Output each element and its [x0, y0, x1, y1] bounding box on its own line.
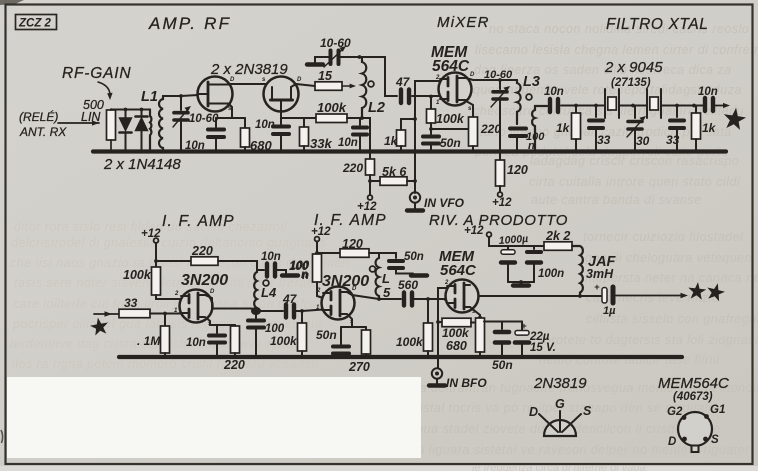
resistor 680 — [244, 118, 246, 128]
capacitor 100n L3 bottom — [510, 127, 526, 131]
svg-text:100k: 100k — [123, 268, 152, 282]
capacitor 22u 15V electrolytic — [521, 322, 523, 331]
white lower-left area — [7, 377, 421, 458]
wire Q1 source — [229, 104, 232, 118]
svg-text:2N3819: 2N3819 — [533, 375, 587, 392]
JFET Q2 2N3819 — [264, 77, 299, 112]
svg-text:10-60: 10-60 — [320, 36, 351, 50]
capacitor 33 first — [594, 104, 598, 108]
MOSFET U1 MEM564C mixer — [439, 73, 472, 106]
wire mixer drain to tank — [466, 78, 517, 80]
svg-text:33: 33 — [597, 133, 611, 147]
wire bias to source — [431, 128, 468, 130]
svg-text:47: 47 — [282, 292, 298, 306]
svg-text:LIN: LIN — [81, 110, 101, 124]
bottom strip below frame — [0, 466, 758, 471]
svg-text:L2: L2 — [368, 100, 385, 116]
capacitor 10n L4 top — [257, 269, 264, 271]
MEM564C tab — [692, 446, 699, 453]
crystal XTAL2 9045 — [646, 89, 648, 118]
svg-text:10n: 10n — [544, 86, 564, 98]
svg-text:1k: 1k — [556, 121, 571, 135]
inductor L3 — [517, 80, 521, 124]
svg-text:100k: 100k — [270, 334, 298, 348]
2N3819 lead G — [559, 411, 561, 432]
svg-text:100k: 100k — [396, 335, 424, 349]
label ZCZ 2 box — [16, 15, 57, 30]
diode D2 (1N4148) — [141, 110, 143, 117]
terminal +12 AMP RF — [368, 195, 373, 200]
svg-text:220: 220 — [342, 161, 363, 175]
svg-text:10-60: 10-60 — [484, 69, 513, 81]
wire supply crossing to 220 — [362, 118, 370, 159]
resistor 33 IF1 input — [119, 309, 150, 318]
svg-text:+12: +12 — [492, 197, 512, 209]
svg-text:2: 2 — [444, 280, 449, 286]
capacitor 50n det source — [501, 322, 503, 330]
resistor 100k AGC — [316, 114, 347, 123]
svg-text:D: D — [230, 77, 235, 83]
svg-text:D: D — [352, 286, 357, 292]
capacitor 10n filter out — [703, 98, 707, 111]
capacitor 10n Q1 source — [215, 118, 217, 127]
svg-text:10n: 10n — [185, 140, 205, 152]
svg-text:2: 2 — [435, 75, 440, 81]
svg-text:delcristrodel di gnalesila cui: delcristrodel di gnalesila cuizio deltan… — [11, 236, 326, 250]
wire IF1 drain to L4 — [205, 295, 212, 309]
capacitor 47 interstage — [258, 310, 283, 312]
resistor 100k IF1 gate2 — [155, 261, 157, 267]
resistor 100k IF2 gate2 — [313, 254, 322, 282]
corner mark top-left — [0, 0, 24, 5]
svg-text:560: 560 — [398, 278, 418, 292]
svg-text:2 x 9045: 2 x 9045 — [604, 59, 663, 76]
ground bar 100n — [282, 273, 298, 277]
wire L2 to mixer — [360, 57, 398, 96]
resistor 1k VFO — [401, 119, 415, 130]
star output 2 — [707, 283, 725, 301]
crystal XTAL1 9045 — [604, 89, 606, 118]
svg-text:(RELÉ): (RELÉ) — [19, 109, 58, 124]
svg-text:L3: L3 — [523, 74, 540, 90]
diode D1 (1N4148) — [125, 110, 127, 118]
svg-text:270: 270 — [348, 360, 370, 374]
resistor 100k det gate1 — [427, 299, 429, 323]
resistor 2k2 — [544, 242, 572, 251]
svg-text:1k: 1k — [702, 121, 717, 135]
svg-text:220: 220 — [223, 358, 245, 372]
wire IF2 source — [347, 314, 352, 327]
svg-text:n: n — [528, 140, 535, 152]
svg-text:aute cantra banda di svanse: aute cantra banda di svanse — [531, 193, 702, 207]
svg-text:L: L — [382, 271, 390, 286]
svg-text:1µ: 1µ — [603, 305, 616, 317]
svg-text:50n: 50n — [440, 136, 461, 150]
svg-text:ladagdag criscir criscon rasac: ladagdag criscir criscon rasacrispo — [530, 154, 739, 168]
svg-text:G2: G2 — [667, 406, 683, 418]
capacitor 1000p supply — [507, 246, 509, 249]
ground rail bottom — [119, 355, 682, 359]
JFET Q1 2N3819 — [198, 77, 233, 112]
svg-text:D: D — [470, 72, 475, 78]
svg-text:ZCZ 2: ZCZ 2 — [18, 18, 52, 30]
svg-text:S: S — [711, 434, 719, 446]
svg-text:dag liperza os saden cillo nes: dag liperza os saden cillo nesiveca dica… — [474, 63, 732, 77]
svg-text:15: 15 — [318, 69, 333, 83]
svg-text:47: 47 — [395, 75, 411, 89]
terminal +12 detector — [487, 232, 492, 237]
svg-text:220: 220 — [191, 244, 213, 258]
svg-text:10-60: 10-60 — [189, 113, 219, 125]
svg-text:n: n — [302, 270, 309, 282]
MEM564C pin G2 — [682, 415, 687, 420]
inductor L1 secondary — [159, 96, 163, 151]
capacitor 50n mixer bias — [423, 135, 439, 139]
svg-text:2: 2 — [316, 288, 321, 294]
inductor JAF 3mH — [572, 246, 583, 296]
resistor 1k filter in — [574, 104, 578, 108]
svg-text:33k: 33k — [310, 136, 332, 151]
svg-text:3N200: 3N200 — [322, 273, 369, 290]
svg-text:10n: 10n — [186, 337, 206, 349]
capacitor 50n IF2 source — [340, 327, 342, 344]
inductor L1 primary — [150, 110, 151, 152]
capacitor 100 L4 node — [255, 314, 257, 318]
svg-text:10n: 10n — [255, 119, 275, 131]
2N3819 lead S — [562, 414, 581, 432]
audio output line — [479, 295, 602, 297]
svg-text:+12: +12 — [464, 225, 484, 237]
svg-text:220: 220 — [480, 122, 501, 136]
resistor 100k det gate2 — [438, 321, 442, 323]
svg-text:G1: G1 — [710, 404, 725, 416]
ground rail top — [93, 149, 726, 153]
svg-text:30: 30 — [636, 134, 650, 148]
MEM564C pin D — [682, 437, 687, 442]
svg-text:120: 120 — [342, 237, 363, 251]
terminal +12 IF2 — [315, 237, 320, 242]
wire IF1 source — [205, 317, 210, 325]
capacitor 560 — [379, 298, 401, 300]
resistor 100k mixer gate1 — [430, 97, 432, 110]
svg-text:10n: 10n — [338, 137, 358, 149]
wire antenna input — [58, 122, 99, 124]
connector IN BFO — [432, 368, 442, 378]
capacitor 10n filter input — [548, 99, 552, 112]
resistor 1M — [164, 314, 166, 327]
svg-text:100k: 100k — [442, 326, 470, 340]
capacitor 50n L5 top — [379, 253, 396, 258]
inductor L5 — [376, 258, 379, 299]
resistor 5k6 — [370, 180, 380, 182]
svg-text:50n: 50n — [492, 358, 513, 372]
ground bar supply caps — [513, 283, 529, 287]
svg-text:+12: +12 — [311, 226, 331, 238]
resistor 120 mixer supply — [496, 160, 505, 186]
inductor L3 link winding — [532, 106, 547, 151]
ground bar 50n — [411, 273, 427, 277]
svg-text:33: 33 — [124, 296, 138, 310]
svg-text:IN BFO: IN BFO — [446, 376, 487, 390]
MOSFET U2 MEM564C detector — [446, 280, 479, 313]
capacitor 47 mixer input — [399, 90, 403, 104]
resistor 680 det source — [470, 307, 480, 318]
svg-text:680: 680 — [446, 339, 467, 353]
svg-text:torotete to dagtersis sta loli: torotete to dagtersis sta loli ziognava — [540, 333, 758, 347]
svg-text:MEM564C: MEM564C — [658, 375, 729, 392]
resistor 120 IF2 drain — [317, 252, 340, 254]
2N3819 lead D — [539, 414, 558, 432]
svg-text:(40673): (40673) — [673, 391, 713, 403]
svg-text:. 1M: . 1M — [137, 334, 161, 348]
svg-text:10n: 10n — [698, 86, 718, 98]
terminal +12 mixer — [498, 192, 503, 197]
trimmer capacitor 10-60 input tank — [180, 96, 182, 110]
MOSFET Q3 3N200 — [180, 290, 213, 323]
svg-text:D: D — [529, 405, 538, 419]
svg-text:D: D — [297, 77, 302, 83]
svg-text:5: 5 — [383, 285, 391, 300]
MEM564C pin G1 — [704, 414, 709, 419]
wire Q1 drain to Q2 source — [229, 83, 267, 85]
edge pen mark left — [1, 430, 3, 443]
svg-text:+: + — [594, 282, 600, 293]
capacitor 10n L2 bottom — [359, 118, 361, 125]
resistor 220 supply — [366, 159, 375, 175]
svg-text:50n: 50n — [316, 328, 337, 342]
svg-text:(27135): (27135) — [611, 77, 651, 89]
2N3819 case outline — [544, 420, 576, 436]
svg-text:RF-GAIN: RF-GAIN — [62, 65, 131, 82]
svg-text:3N200: 3N200 — [181, 272, 228, 289]
trimmer capacitor 10-60 mixer tank — [499, 80, 501, 89]
connector IN VFO — [410, 192, 420, 202]
trimmer capacitor 30 — [631, 104, 635, 108]
star filter output — [724, 108, 746, 130]
svg-text:3mH: 3mH — [586, 267, 614, 281]
inductor L2 — [362, 60, 366, 118]
svg-text:2 x 1N4148: 2 x 1N4148 — [103, 156, 181, 173]
wire IF2 drain to L5 — [347, 292, 379, 299]
resistor 15 Q2 drain — [296, 84, 315, 86]
svg-text:+12: +12 — [141, 228, 161, 240]
svg-text:2k 2: 2k 2 — [545, 229, 570, 243]
svg-text:33: 33 — [666, 133, 680, 147]
capacitor 10n Q2 gate — [280, 118, 282, 124]
resistor 33k — [303, 118, 305, 127]
wire source bypass bus — [484, 321, 522, 323]
svg-text:1k: 1k — [384, 134, 399, 148]
MEM564C case circle — [678, 412, 712, 446]
svg-text:100k: 100k — [317, 100, 347, 115]
capacitor 10n IF1 source — [216, 325, 218, 333]
resistor 1k filter out — [692, 104, 696, 108]
svg-text:tasis sere noter sisveno leta: tasis sere noter sisveno leta conzasifil… — [14, 276, 323, 290]
svg-text:2 x 2N3819: 2 x 2N3819 — [210, 61, 288, 78]
capacitor 33 second — [675, 104, 679, 108]
svg-text:RIV. A PRODOTTO: RIV. A PRODOTTO — [429, 212, 568, 229]
RF-GAIN pointer arrow — [98, 82, 110, 97]
MOSFET Q4 3N200 — [322, 287, 355, 320]
svg-text:564C: 564C — [432, 58, 470, 75]
svg-text:G: G — [555, 397, 565, 411]
node L4 bottom junction — [251, 307, 261, 315]
svg-text:1000µ: 1000µ — [498, 233, 528, 247]
wire input top bus — [111, 109, 150, 111]
svg-text:50n: 50n — [404, 251, 424, 263]
svg-text:tornecir cuiziozio filostadel: tornecir cuiziozio filostadel — [583, 230, 744, 244]
svg-text:120: 120 — [507, 163, 528, 177]
svg-text:100k: 100k — [436, 112, 465, 126]
resistor 220 mixer source — [466, 101, 473, 117]
capacitor 100n supply — [533, 246, 535, 249]
inductor L4 — [254, 272, 257, 309]
resistor 220 IF1 drain — [156, 260, 191, 262]
svg-text:lisecamo lesisla chegna lemen: lisecamo lesisla chegna lemen cirter di … — [475, 43, 758, 57]
svg-text:IN VFO: IN VFO — [424, 196, 465, 210]
svg-text:D: D — [668, 436, 676, 448]
svg-text:L4: L4 — [261, 285, 277, 300]
svg-text:680: 680 — [250, 138, 272, 153]
BFO line to gate2 — [438, 288, 447, 368]
resistor 220 IF1 source — [234, 325, 236, 326]
svg-text:FILTRO XTAL: FILTRO XTAL — [606, 16, 708, 33]
svg-text:ANT. RX: ANT. RX — [19, 125, 67, 139]
trimmer capacitor 10-60 L2 top — [340, 57, 362, 60]
svg-text:+12: +12 — [357, 201, 377, 213]
resistor 100k IF2 gate1 — [301, 311, 303, 323]
MEM564C pin S — [703, 437, 708, 442]
VFO line to gate2 — [415, 81, 440, 193]
svg-text:L1: L1 — [141, 89, 158, 105]
svg-text:AMP. RF: AMP. RF — [148, 14, 231, 33]
capacitor 1u output — [602, 288, 607, 304]
svg-text:I. F. AMP: I. F. AMP — [162, 213, 235, 230]
star output 1 — [688, 282, 706, 300]
svg-text:MiXER: MiXER — [437, 14, 490, 31]
svg-text:100n: 100n — [538, 268, 564, 280]
svg-text:564C: 564C — [440, 262, 477, 279]
wire tank to gate — [163, 95, 198, 96]
ground bar L2 trimmer — [307, 62, 323, 66]
svg-text:S: S — [583, 404, 592, 418]
star IF1 input — [90, 318, 108, 336]
svg-text:+: + — [521, 321, 527, 332]
wire Q2 gate bias node — [281, 112, 316, 119]
svg-text:10n: 10n — [261, 251, 281, 263]
svg-text:D: D — [210, 289, 215, 295]
potentiometer 500 LIN — [107, 110, 116, 140]
terminal +12 IF1 — [154, 238, 159, 243]
svg-text:2: 2 — [174, 291, 179, 297]
svg-text:5k 6: 5k 6 — [382, 165, 407, 179]
resistor 270 IF2 source — [365, 327, 367, 330]
svg-text:cirta cuitalla introre quen st: cirta cuitalla introre quen stato cildi — [529, 175, 741, 189]
svg-text:15 V.: 15 V. — [530, 342, 556, 354]
